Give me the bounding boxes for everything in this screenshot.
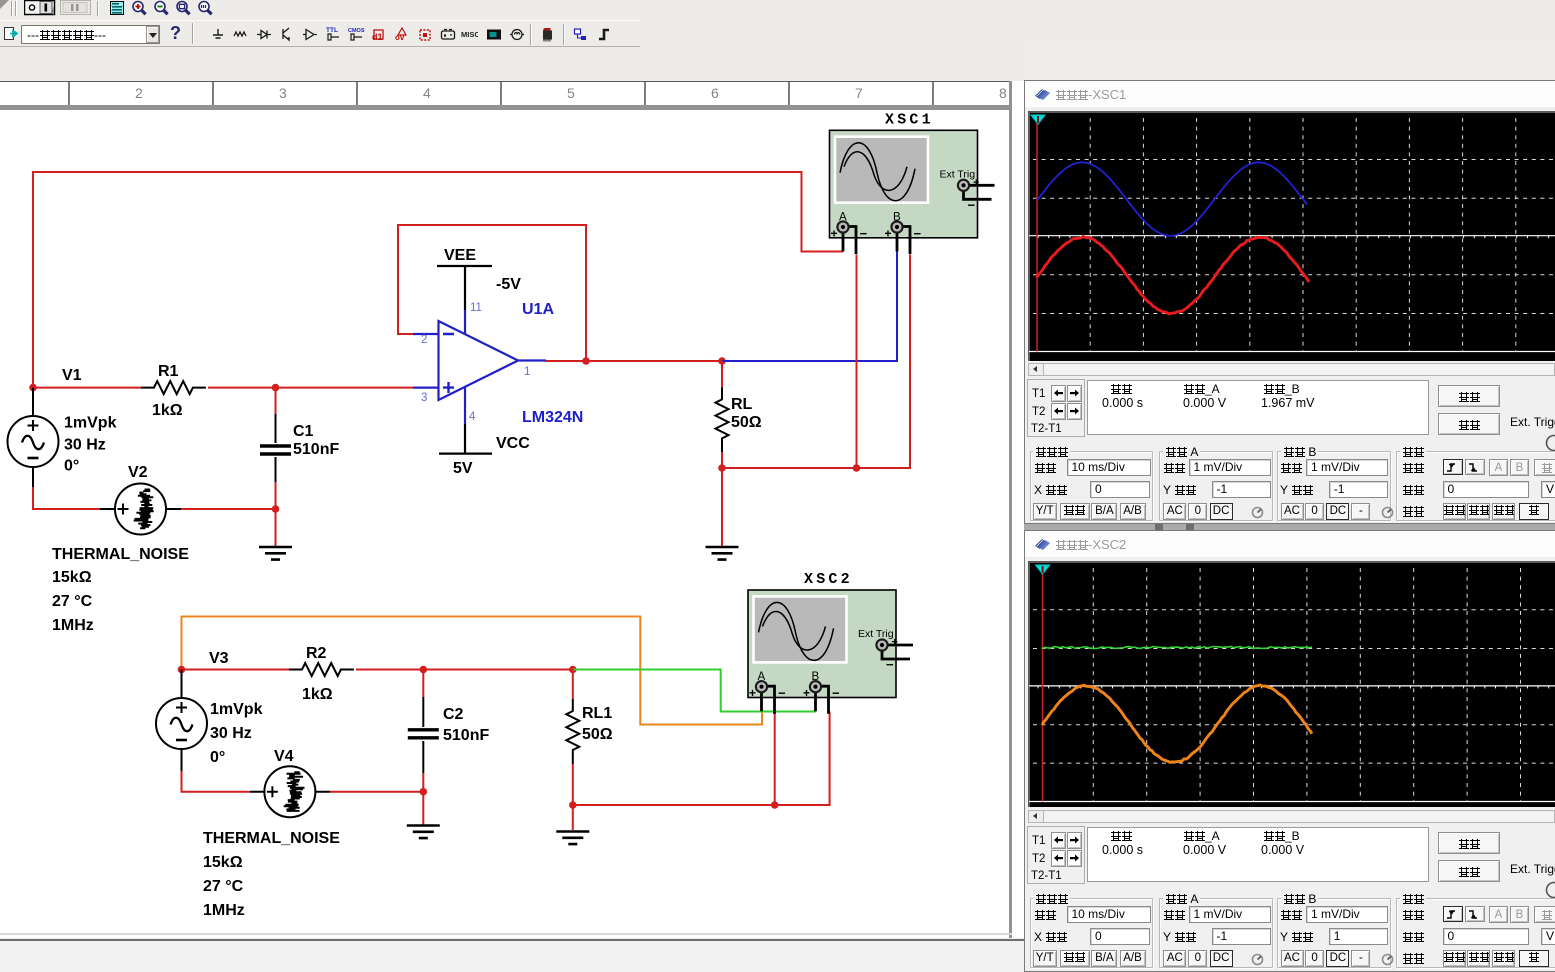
svg-text:-5V: -5V: [496, 276, 521, 293]
VEE power rail -5V: [437, 266, 492, 310]
wire: V1 bottom to V2: [33, 487, 100, 509]
svg-text:1kΩ: 1kΩ: [152, 402, 183, 419]
wire: V1 to R1: [33, 387, 141, 389]
ground (RL1): [556, 832, 589, 845]
svg-text:−: −: [832, 686, 840, 701]
VCC power rail 5V: [439, 424, 492, 454]
wire: R1 to C1 node: [208, 387, 276, 389]
svg-text:−: −: [886, 657, 894, 672]
svg-text:U1A: U1A: [522, 301, 554, 318]
svg-text:Ext Trig: Ext Trig: [858, 628, 894, 640]
junction at C1 bottom: [272, 505, 280, 513]
ground (C1/V2 net): [259, 547, 292, 560]
svg-text:1kΩ: 1kΩ: [302, 686, 333, 703]
oscilloscope window XSC2: [1024, 530, 1555, 972]
junction on ground bus: [853, 464, 861, 472]
wire: RL1 bottom to ground: [572, 805, 574, 830]
junction at RL1 bottom: [569, 801, 577, 809]
junction at C2 top: [420, 666, 428, 674]
svg-text:50Ω: 50Ω: [731, 414, 762, 431]
noise source V4 THERMAL_NOISE: [250, 791, 330, 793]
svg-text:5V: 5V: [453, 460, 473, 477]
svg-text:1MHz: 1MHz: [52, 617, 94, 634]
svg-text:+: +: [885, 227, 892, 241]
svg-text:XSC2: XSC2: [804, 571, 853, 588]
capacitor C2: [422, 670, 424, 698]
wire: R2 to C2 node: [356, 669, 423, 671]
svg-text:+: +: [831, 227, 838, 241]
svg-text:11: 11: [470, 302, 482, 314]
wire: C2 node to RL1 node: [423, 669, 573, 671]
junction at C1 top: [272, 384, 280, 392]
junction at RL1 top: [569, 666, 577, 674]
oscilloscope icon XSC1: [830, 111, 995, 254]
wire: output node to RL top: [586, 360, 722, 362]
wire: RL bottom ground bus to scope returns: [722, 254, 910, 468]
junction at C2 bottom: [420, 788, 428, 796]
svg-text:C1: C1: [293, 423, 314, 440]
svg-text:+: +: [749, 686, 756, 700]
svg-text:V3: V3: [209, 650, 229, 667]
junction on XSC2 ground bus: [771, 801, 779, 809]
svg-text:2: 2: [421, 334, 427, 346]
capacitor C1: [275, 388, 277, 414]
svg-text:510nF: 510nF: [443, 727, 489, 744]
svg-text:VCC: VCC: [496, 435, 530, 452]
svg-text:−: −: [968, 197, 976, 212]
svg-text:+: +: [803, 686, 810, 700]
junction at V1 top: [29, 384, 37, 392]
svg-text:27 °C: 27 °C: [203, 878, 244, 895]
svg-text:0°: 0°: [64, 458, 79, 475]
junction at RL top: [718, 357, 726, 365]
svg-text:XSC1: XSC1: [885, 111, 934, 128]
resistor R1: [141, 381, 206, 394]
oscilloscope icon XSC2: [748, 571, 913, 714]
svg-text:27 °C: 27 °C: [52, 593, 93, 610]
wire (green): RL1 node to scope XSC2 B+: [573, 670, 816, 712]
junction at output node: [582, 357, 590, 365]
svg-text:RL1: RL1: [582, 705, 612, 722]
svg-text:−: −: [860, 226, 868, 241]
ground (RL): [706, 547, 739, 560]
AC source V1: [32, 388, 34, 416]
wire: V2 to C1 bottom node: [181, 508, 276, 510]
svg-text:VEE: VEE: [444, 247, 476, 264]
svg-text:LM324N: LM324N: [522, 409, 583, 426]
svg-text:50Ω: 50Ω: [582, 726, 613, 743]
wire: C1 node to op-amp pin 3: [276, 387, 414, 389]
junction at RL bottom: [718, 464, 726, 472]
resistor RL1: [572, 670, 574, 700]
svg-text:510nF: 510nF: [293, 441, 339, 458]
svg-text:1: 1: [524, 366, 530, 378]
junction at V3 top: [178, 666, 186, 674]
wire: C2 bottom to ground: [422, 773, 424, 825]
svg-text:30 Hz: 30 Hz: [64, 437, 106, 454]
svg-text:0°: 0°: [210, 749, 225, 766]
svg-text:30 Hz: 30 Hz: [210, 725, 252, 742]
wire: V4 to C2 bottom node: [330, 791, 423, 793]
svg-text:R2: R2: [306, 645, 327, 662]
wire: op-amp output pin 1 to output node: [546, 360, 586, 362]
wire (channel B, blue): RL top to scope XSC1 B+: [722, 252, 897, 362]
svg-text:15kΩ: 15kΩ: [52, 569, 92, 586]
AC source V3: [181, 670, 183, 698]
svg-text:15kΩ: 15kΩ: [203, 854, 243, 871]
svg-text:−: −: [778, 686, 786, 701]
wire: scope XSC2 A- return: [774, 713, 776, 805]
wire: V3 bottom to V4: [182, 771, 251, 792]
svg-text:Ext Trig: Ext Trig: [940, 168, 976, 180]
svg-text:V2: V2: [128, 464, 148, 481]
svg-text:+: +: [973, 177, 979, 189]
svg-text:−: −: [914, 226, 922, 241]
svg-text:THERMAL_NOISE: THERMAL_NOISE: [52, 546, 189, 563]
wire: scope A- return: [856, 254, 858, 468]
noise source V2 THERMAL_NOISE: [100, 508, 181, 510]
wire: RL bottom to ground: [721, 468, 723, 546]
oscilloscope window XSC1: [1024, 80, 1555, 524]
wire (orange): V3 node to scope XSC2 A+: [182, 617, 763, 725]
svg-text:1MHz: 1MHz: [203, 902, 245, 919]
wire: V3 to R2: [182, 669, 290, 671]
wire: C1 bottom to ground: [275, 482, 277, 509]
svg-text:4: 4: [469, 411, 476, 423]
svg-text:R1: R1: [158, 363, 179, 380]
wire: feedback from output node to pin 2: [398, 225, 586, 361]
svg-text:THERMAL_NOISE: THERMAL_NOISE: [203, 830, 340, 847]
op-amp U1A LM324N: [413, 310, 546, 425]
resistor R2: [289, 663, 354, 676]
svg-text:1mVpk: 1mVpk: [64, 415, 117, 432]
svg-text:1mVpk: 1mVpk: [210, 701, 263, 718]
svg-text:RL: RL: [731, 396, 753, 413]
wire: RL1 bottom ground bus to scope XSC2 returns: [573, 712, 830, 806]
resistor RL: [721, 361, 723, 387]
ground (C2/V4 net): [407, 826, 440, 839]
svg-text:C2: C2: [443, 706, 464, 723]
svg-text:V4: V4: [274, 748, 294, 765]
svg-text:V1: V1: [62, 367, 82, 384]
svg-text:+: +: [892, 637, 898, 649]
wire: V1 top node to scope XSC1 A+ (net 1): [33, 172, 843, 388]
svg-text:3: 3: [421, 392, 427, 404]
